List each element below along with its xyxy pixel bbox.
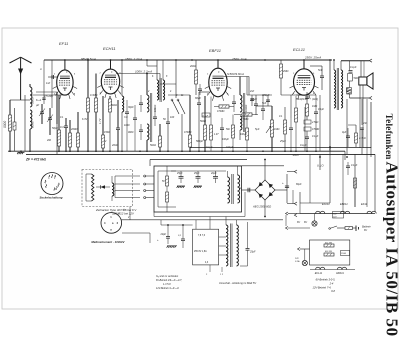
- svg-text:0.3: 0.3: [60, 125, 64, 129]
- svg-text:250V, 25mA: 250V, 25mA: [304, 56, 321, 60]
- svg-text:1nF: 1nF: [46, 82, 51, 85]
- svg-text:0.1µF: 0.1µF: [318, 109, 325, 111]
- svg-text:160µF: 160µF: [222, 138, 229, 141]
- svg-text:30pF: 30pF: [128, 106, 134, 109]
- svg-text:6V: 6V: [364, 229, 367, 232]
- svg-text:2MΩ: 2MΩ: [282, 70, 288, 73]
- svg-text:250V, 2mA: 250V, 2mA: [231, 57, 247, 61]
- svg-text:50kΩ: 50kΩ: [150, 144, 156, 147]
- svg-text:6.3V: 6.3V: [82, 118, 87, 121]
- svg-text:2nF: 2nF: [362, 123, 368, 125]
- svg-text:6V: 6V: [297, 221, 300, 224]
- svg-text:80µF: 80µF: [195, 96, 201, 100]
- svg-text:0000: 0000: [128, 131, 134, 134]
- svg-text:ECL11: ECL11: [322, 202, 330, 206]
- svg-text:ZF = 472 kHz: ZF = 472 kHz: [25, 157, 46, 161]
- svg-text:6-+1: 6-+1: [36, 98, 42, 102]
- svg-text:0000: 0000: [31, 121, 35, 128]
- svg-text:2.5kΩ: 2.5kΩ: [311, 121, 319, 124]
- svg-text:0.5MΩ: 0.5MΩ: [184, 131, 192, 134]
- svg-text:255 8V 1,8A: 255 8V 1,8A: [194, 250, 207, 253]
- svg-text:12V-Betrieb 3—4¹—6: 12V-Betrieb 3—4¹—6: [156, 287, 179, 290]
- svg-text:EBF11: EBF11: [209, 48, 221, 53]
- svg-text:45µF: 45µF: [177, 172, 183, 175]
- svg-text:0.1µF: 0.1µF: [300, 144, 307, 147]
- svg-text:Telefunken: Telefunken: [384, 114, 394, 160]
- svg-text:111: 111: [345, 88, 349, 92]
- svg-text:EF11: EF11: [361, 202, 368, 206]
- svg-text:+: +: [282, 181, 284, 185]
- svg-text:25µF: 25µF: [249, 251, 256, 254]
- svg-text:80µF: 80µF: [296, 183, 302, 186]
- svg-text:0000: 0000: [31, 97, 35, 104]
- svg-text:1.07: 1.07: [214, 134, 219, 136]
- svg-text:5µF: 5µF: [255, 128, 260, 131]
- svg-text:0µF: 0µF: [342, 131, 347, 134]
- svg-text:100: 100: [170, 116, 175, 119]
- svg-text:1MΩ: 1MΩ: [312, 105, 317, 108]
- svg-text:200Ω: 200Ω: [70, 127, 77, 131]
- svg-text:2-4: 2-4: [329, 282, 334, 286]
- svg-text:Autosuper IA 50/IB 50: Autosuper IA 50/IB 50: [382, 162, 400, 337]
- svg-text:G₃ sind zu verbinden: G₃ sind zu verbinden: [156, 275, 179, 278]
- svg-text:µF: µF: [36, 103, 39, 107]
- svg-text:2nF: 2nF: [249, 90, 255, 93]
- svg-text:0.3MΩ: 0.3MΩ: [90, 94, 98, 97]
- svg-text:150Ω: 150Ω: [341, 253, 346, 255]
- svg-text:25µF: 25µF: [279, 140, 286, 143]
- svg-text:6-8: 6-8: [331, 289, 335, 293]
- svg-text:20µF: 20µF: [160, 233, 167, 236]
- svg-text:150Ω: 150Ω: [104, 131, 110, 134]
- svg-text:50kΩ: 50kΩ: [111, 104, 117, 107]
- svg-text:ECH11: ECH11: [103, 46, 116, 51]
- svg-text:5nF: 5nF: [262, 102, 267, 105]
- svg-text:20µF: 20µF: [210, 172, 217, 175]
- svg-text:10000: 10000: [244, 104, 248, 112]
- svg-text:12V: 12V: [295, 258, 299, 260]
- svg-text:0000: 0000: [3, 121, 7, 128]
- svg-text:ECL11: ECL11: [315, 272, 323, 275]
- svg-text:(1kΩ): (1kΩ): [312, 98, 318, 101]
- svg-text:50pF: 50pF: [52, 126, 58, 130]
- svg-text:A: A: [39, 68, 42, 71]
- svg-text:6V-Betrieb 3-0-5,: 6V-Betrieb 3-0-5,: [316, 278, 336, 282]
- svg-text:0.1µF: 0.1µF: [351, 164, 358, 167]
- svg-text:EBF11: EBF11: [336, 272, 344, 275]
- svg-text:U.LO: U.LO: [317, 164, 324, 168]
- svg-text:0.5MΩ: 0.5MΩ: [312, 128, 319, 131]
- svg-text:4.5MΩ: 4.5MΩ: [241, 118, 249, 121]
- svg-text:380V: 380V: [293, 153, 301, 157]
- svg-text:ECL11: ECL11: [293, 47, 305, 52]
- svg-text:0.1µF: 0.1µF: [206, 146, 213, 149]
- svg-text:100V, 2.2mA: 100V, 2.2mA: [135, 70, 152, 74]
- svg-text:0.1µF: 0.1µF: [203, 115, 209, 117]
- svg-text:6V-Betrieb 2/6—4¹—1/7,: 6V-Betrieb 2/6—4¹—1/7,: [156, 279, 182, 282]
- svg-text:Umschalt - Anleitung im Blatt: Umschalt - Anleitung im Blatt 5V: [219, 281, 256, 285]
- svg-text:Sockelschaltung: Sockelschaltung: [40, 195, 63, 199]
- svg-text:6Ω 3W: 6Ω 3W: [325, 251, 333, 253]
- svg-text:560pF: 560pF: [196, 140, 204, 143]
- svg-text:162µF: 162µF: [226, 146, 234, 149]
- svg-text:50kΩ: 50kΩ: [200, 120, 206, 123]
- svg-text:AEG 2500 60Ω: AEG 2500 60Ω: [252, 205, 271, 209]
- svg-text:1-3 5-8: 1-3 5-8: [163, 283, 171, 286]
- svg-text:0.1µF: 0.1µF: [312, 135, 319, 138]
- svg-text:EBF11: EBF11: [340, 202, 348, 206]
- svg-text:1MΩ: 1MΩ: [274, 128, 279, 131]
- svg-text:0.5MΩ: 0.5MΩ: [217, 110, 225, 113]
- svg-text:0.1µF: 0.1µF: [350, 66, 357, 69]
- svg-text:EF11: EF11: [59, 41, 68, 46]
- svg-text:12V-Betrieb 7-4,: 12V-Betrieb 7-4,: [313, 286, 332, 290]
- svg-text:3.0: 3.0: [124, 116, 128, 119]
- svg-text:6Ω 3W: 6Ω 3W: [325, 243, 333, 245]
- svg-text:Meßinstrument - 100Ω/V: Meßinstrument - 100Ω/V: [91, 240, 125, 244]
- svg-text:45µF: 45µF: [194, 172, 200, 175]
- svg-text:20kΩ: 20kΩ: [189, 65, 196, 68]
- svg-text:4.7kΩ: 4.7kΩ: [359, 137, 366, 140]
- svg-text:50Ω: 50Ω: [354, 77, 359, 80]
- svg-text:0.1A: 0.1A: [295, 260, 300, 263]
- svg-text:200: 200: [46, 139, 52, 142]
- svg-text:6V: 6V: [304, 221, 307, 224]
- svg-text:55kΩ(9mA): 55kΩ(9mA): [296, 98, 308, 101]
- svg-text:1.7V: 1.7V: [98, 118, 102, 124]
- svg-text:180V, 2.2mA: 180V, 2.2mA: [125, 57, 142, 61]
- svg-text:150V/9.8mA: 150V/9.8mA: [228, 72, 244, 76]
- svg-text:160µF: 160µF: [240, 133, 247, 136]
- svg-text:7,8 7,6: 7,8 7,6: [198, 235, 206, 237]
- svg-text:20nF: 20nF: [111, 143, 118, 147]
